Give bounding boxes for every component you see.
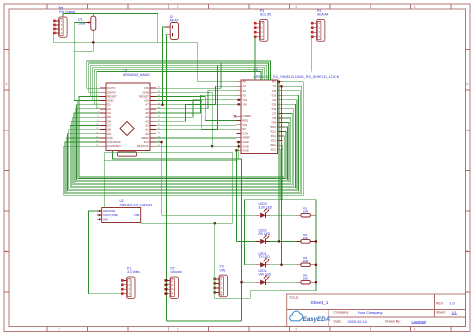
svg-text:GND: GND	[242, 149, 248, 153]
EasyEDA logo	[290, 311, 331, 323]
svg-text:ARDUINO_NANO: ARDUINO_NANO	[123, 73, 150, 77]
wire resistor top feed line	[245, 200, 316, 291]
wire nano A2 row to shield VIN	[156, 124, 236, 126]
resistor R2 10K	[296, 233, 316, 243]
svg-text:TITLE:: TITLE:	[289, 296, 299, 300]
node 3V3 tap	[161, 141, 163, 143]
svg-text:RX LED: RX LED	[259, 232, 271, 236]
connector P3 SCL_A5	[254, 9, 271, 41]
svg-text:4: 4	[414, 5, 416, 9]
connector P5 Pot Output	[53, 6, 75, 37]
wire shield GND stub down to LED2 row	[235, 150, 237, 241]
wire loop B below nano to LED rail	[112, 151, 241, 321]
svg-text:*D11: *D11	[270, 130, 277, 134]
connector P2 Ground	[164, 266, 181, 298]
wire nano VIN up to top bundle	[156, 63, 221, 88]
wire P3 SCL down to shield	[254, 37, 256, 80]
svg-text:A3: A3	[242, 93, 246, 97]
wire nano RESET to shield RES	[156, 96, 236, 120]
wire shield SCL down to bus line	[280, 150, 282, 200]
LED LED1 TX LED	[255, 252, 270, 268]
svg-text:SCL A5: SCL A5	[260, 13, 271, 17]
title block	[287, 294, 466, 327]
svg-text:SCL: SCL	[271, 148, 277, 152]
svg-text:VIN: VIN	[103, 217, 108, 221]
wire nano 3V3 down to LED3 row	[156, 142, 233, 215]
connector P4 SDA_A4	[311, 9, 329, 41]
LED LED2 RX LED	[255, 228, 270, 244]
wire nano AREF to shield AREF	[156, 137, 236, 139]
svg-text:1: 1	[58, 328, 60, 332]
svg-text:A2: A2	[242, 89, 246, 93]
svg-text:2: 2	[177, 5, 179, 9]
svg-text:TAB: TAB	[134, 213, 139, 217]
node GND D13 junction	[211, 145, 213, 147]
svg-text:Sheet_1: Sheet_1	[311, 300, 329, 306]
svg-text:Your Company: Your Company	[358, 311, 383, 315]
wire U4 VOUT line	[141, 222, 233, 224]
node P6 ground pin taps	[165, 279, 167, 294]
svg-text:D12/MISO: D12/MISO	[107, 144, 121, 148]
svg-text:*D9: *D9	[271, 120, 276, 124]
svg-text:A1: A1	[242, 84, 246, 88]
wire J2 pin2 ground rail long vertical	[165, 35, 166, 321]
node VOUT junction	[214, 222, 216, 224]
svg-text:Sheet:: Sheet:	[436, 311, 446, 315]
connector J2 A6 A7	[165, 15, 179, 39]
wire nano A1 up to top bundle	[156, 65, 217, 130]
wire P4 SDA down to shield	[311, 37, 313, 72]
svg-text:*D3: *D3	[271, 93, 276, 97]
wire nano +5V to shield 5V	[156, 101, 236, 130]
resistor R3 10R	[296, 256, 316, 266]
svg-text:*D6: *D6	[271, 107, 276, 111]
wire shield GND pin to LED rail	[238, 142, 240, 159]
node pot bottom junction	[92, 41, 94, 43]
node resistor bus taps	[315, 240, 317, 283]
svg-text:3: 3	[295, 328, 297, 332]
svg-text:*A5: *A5	[242, 102, 247, 106]
svg-text:A6 A7: A6 A7	[170, 19, 179, 23]
svg-text:4: 4	[414, 328, 416, 332]
svg-text:RX: RX	[272, 80, 276, 84]
node shield A4 A5 taps	[238, 99, 240, 106]
svg-text:1/1: 1/1	[452, 311, 457, 315]
wire LED1 row	[245, 200, 297, 265]
LED LED4 VIN LED	[255, 269, 271, 285]
svg-text:D13: D13	[271, 139, 277, 143]
node TX taps	[280, 85, 282, 266]
svg-text:Lacybad: Lacybad	[412, 320, 426, 324]
node J2 A7 tap	[161, 104, 163, 106]
no-connect mark shield IOREF	[234, 115, 237, 118]
wire ground rail to LED cathode rail along bottom	[166, 320, 241, 322]
svg-text:*A4: *A4	[242, 98, 247, 102]
svg-text:Ground: Ground	[171, 270, 182, 274]
wire shield RX to LED2	[278, 82, 280, 242]
wire shield TX to LED1	[281, 86, 283, 265]
wire pot wiper down-left rail	[74, 23, 100, 101]
LED LED3 3.3V LED	[255, 202, 272, 218]
Arduino R3 shield U3	[236, 68, 339, 153]
svg-text:REV:: REV:	[436, 301, 444, 305]
wire bus top bundle nano left pins to shield top	[87, 61, 271, 109]
wire loop C below nano to LED2 column	[104, 160, 236, 162]
wire nano D13 to shield GND	[156, 145, 236, 147]
svg-text:D8: D8	[272, 116, 276, 120]
wire VOUT down to VIN connector loop	[215, 223, 316, 298]
svg-text:D12: D12	[271, 134, 277, 138]
connector P3 VIN	[213, 265, 227, 297]
svg-text:D13/SCK: D13/SCK	[137, 144, 149, 148]
svg-text:Company:: Company:	[334, 311, 350, 315]
svg-text:VIN: VIN	[220, 268, 226, 272]
svg-text:Date:: Date:	[334, 320, 342, 324]
svg-text:D2: D2	[272, 89, 276, 93]
wire pot bottom stub to wiper rail	[74, 42, 93, 51]
node RX taps	[278, 81, 280, 243]
svg-text:D7: D7	[272, 111, 276, 115]
svg-text:Drawn By:: Drawn By:	[385, 320, 401, 324]
svg-text:*D5: *D5	[271, 102, 276, 106]
svg-text:1.0: 1.0	[450, 302, 455, 306]
wire shield SDA down to bus line	[282, 145, 284, 199]
wire pot bottom junction to P1 pin4	[53, 33, 198, 42]
wire J2 pin1 to nano A7 row	[163, 27, 166, 105]
wire pot top to J2 column rail	[63, 14, 158, 43]
wire pot output down to shield A0	[198, 42, 237, 81]
svg-text:D4: D4	[272, 98, 276, 102]
svg-text:TX: TX	[272, 84, 276, 88]
svg-text:EasyEDA: EasyEDA	[303, 316, 331, 323]
wire U4 ADJ to P5 3.3V connector	[89, 211, 122, 294]
svg-text:2: 2	[177, 328, 179, 332]
wire nano GND down to D13 ground line	[156, 92, 212, 146]
wire loop A below nano	[104, 153, 233, 223]
svg-text:3.3 Volts: 3.3 Volts	[127, 270, 140, 274]
wire LED3 row	[233, 214, 297, 216]
potentiometer U1 100k	[78, 13, 96, 33]
wire LED4 row	[242, 281, 297, 283]
wire bus mega bundle nano digital pins around to shield right pins	[64, 82, 304, 196]
svg-text:A0: A0	[242, 80, 246, 84]
svg-text:AMS1117-2.5_C347221: AMS1117-2.5_C347221	[120, 203, 153, 207]
svg-text:TX LED: TX LED	[259, 255, 271, 259]
voltage regulator U2 AMS1117-2.5	[97, 199, 153, 222]
svg-text:2020-02-14: 2020-02-14	[348, 320, 367, 324]
svg-text:SDA A4: SDA A4	[317, 13, 329, 17]
svg-text:*D10: *D10	[270, 125, 277, 129]
svg-text:100k: 100k	[78, 22, 86, 26]
resistor R1 10R	[296, 207, 316, 217]
node LED4 rail tap	[240, 281, 242, 283]
node shield GND taps	[235, 141, 240, 152]
svg-text:B: B	[466, 249, 468, 253]
wire bus nano analog staircase to shield A0-A5	[156, 86, 236, 121]
resistor R4 10K	[296, 274, 316, 284]
wire LED2 row	[236, 240, 296, 242]
Arduino Nano module U1	[96, 69, 160, 156]
svg-text:B: B	[5, 249, 7, 253]
connector P1 3.3 Volts	[121, 266, 140, 298]
svg-text:3: 3	[295, 5, 297, 9]
svg-text:SDA: SDA	[270, 143, 276, 147]
